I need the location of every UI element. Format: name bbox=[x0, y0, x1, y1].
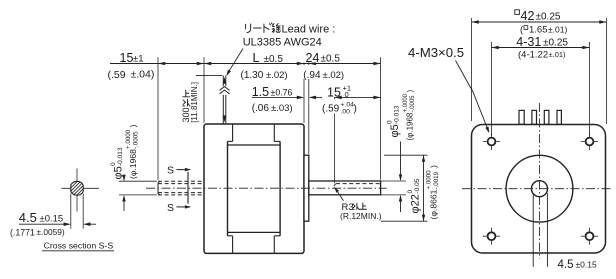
dimension 15 (flat length) lines bbox=[335, 96, 381, 98]
svg-text:±.0059): ±.0059) bbox=[37, 227, 65, 237]
4 terminal pins on motor top bbox=[519, 110, 524, 124]
svg-text:±.02): ±.02) bbox=[323, 70, 345, 81]
svg-text:): ) bbox=[354, 104, 357, 115]
dimension text phi5 front (rotated) bbox=[387, 105, 402, 137]
svg-text:1.65: 1.65 bbox=[529, 25, 548, 36]
svg-text:-.0005: -.0005 bbox=[410, 95, 416, 113]
svg-text:Lead wire :: Lead wire : bbox=[282, 24, 336, 36]
svg-text:±.01): ±.01) bbox=[548, 25, 567, 35]
svg-text:4-31: 4-31 bbox=[516, 35, 541, 49]
front view vertical center line bbox=[539, 103, 541, 259]
svg-text:(φ.1968: (φ.1968 bbox=[128, 149, 138, 179]
svg-text:±1: ±1 bbox=[133, 54, 144, 65]
svg-text:S: S bbox=[167, 202, 174, 214]
dimension text phi22 (rotated) bbox=[407, 178, 422, 213]
svg-text:15: 15 bbox=[120, 51, 134, 65]
svg-text:L: L bbox=[253, 51, 260, 65]
svg-text:-0.05: -0.05 bbox=[414, 178, 421, 193]
svg-text:(.1771: (.1771 bbox=[10, 227, 35, 237]
svg-text:): ) bbox=[128, 125, 138, 128]
shaft circle phi5 (front view) bbox=[532, 181, 548, 197]
svg-text:±0.15: ±0.15 bbox=[576, 259, 597, 269]
dimension text square42±0.25 bbox=[515, 10, 520, 15]
front pilot boss (side view) bbox=[304, 155, 309, 221]
svg-text:4.5: 4.5 bbox=[19, 210, 37, 225]
svg-text:15: 15 bbox=[327, 86, 341, 100]
dimension phi5 (front shaft) lines bbox=[381, 180, 406, 182]
svg-text:±.03): ±.03) bbox=[271, 103, 293, 114]
svg-text:±0.76: ±0.76 bbox=[271, 88, 293, 98]
front view flange outline bbox=[472, 125, 606, 254]
svg-text:(1.30: (1.30 bbox=[241, 70, 264, 81]
front view horizontal center line bbox=[462, 188, 612, 190]
halo behind 15 flat dim text bbox=[322, 99, 359, 114]
dimension 4.5 (across flats) lines bbox=[70, 194, 72, 229]
svg-text:(φ.8661: (φ.8661 bbox=[429, 189, 439, 219]
svg-text:(.59: (.59 bbox=[108, 69, 126, 81]
svg-text:): ) bbox=[406, 90, 415, 93]
svg-text:-0.013: -0.013 bbox=[117, 147, 124, 166]
motor body outline (side view) bbox=[204, 124, 304, 253]
svg-text:±.02): ±.02) bbox=[266, 70, 288, 81]
svg-text:+.0000: +.0000 bbox=[426, 170, 433, 190]
front shaft flat (D-cut) hidden line bbox=[336, 183, 380, 185]
front shaft (side view) bbox=[309, 181, 381, 195]
svg-text:φ22: φ22 bbox=[410, 194, 422, 213]
dimension text 300以上 [11.81MIN.] (rotated) bbox=[181, 107, 191, 122]
cross section S-S shaft detail (hatched circle with flats) bbox=[62, 187, 100, 189]
svg-text:-0.013: -0.013 bbox=[394, 105, 401, 124]
dimension chain lines (15, L, 24) bbox=[110, 63, 381, 65]
pilot circle phi22 (front view) bbox=[506, 155, 573, 222]
svg-text:Cross section S-S: Cross section S-S bbox=[44, 240, 114, 250]
svg-text:+.0000: +.0000 bbox=[125, 129, 132, 149]
svg-text:S: S bbox=[167, 165, 174, 177]
svg-text:±0.25: ±0.25 bbox=[543, 38, 568, 49]
svg-text:UL3385 AWG24: UL3385 AWG24 bbox=[243, 36, 322, 48]
lead wire label bbox=[246, 24, 251, 33]
shaft flat extension lines (front view) bbox=[532, 193, 534, 267]
lead wire exiting motor top (with break symbol) bbox=[222, 76, 224, 124]
stator/lamination section lines on body bbox=[232, 125, 234, 142]
svg-text:1.5: 1.5 bbox=[252, 85, 269, 99]
svg-text:+.04: +.04 bbox=[341, 102, 355, 109]
svg-text:+.0000: +.0000 bbox=[403, 93, 409, 112]
svg-text:): ) bbox=[429, 165, 439, 168]
svg-text:±.04): ±.04) bbox=[131, 69, 155, 81]
svg-text:±0.25: ±0.25 bbox=[536, 12, 561, 23]
dimension 4-31 lines bbox=[491, 42, 493, 136]
svg-text:±0.15: ±0.15 bbox=[40, 213, 64, 224]
svg-text:±0.5: ±0.5 bbox=[264, 54, 284, 65]
svg-text:φ5: φ5 bbox=[113, 166, 125, 179]
svg-text:0: 0 bbox=[345, 90, 349, 99]
4x M3 mounting holes bbox=[488, 138, 496, 146]
dimension phi22 (pilot) lines bbox=[384, 154, 428, 156]
svg-text:4-M3×0.5: 4-M3×0.5 bbox=[408, 45, 464, 60]
svg-text:0: 0 bbox=[110, 162, 117, 166]
svg-text:(φ.1968: (φ.1968 bbox=[406, 112, 415, 140]
lead wire leader arrow bbox=[227, 49, 243, 74]
leader for R3 MIN fillet bbox=[335, 188, 343, 201]
svg-text:±.01): ±.01) bbox=[549, 50, 567, 59]
svg-text:(.06: (.06 bbox=[252, 103, 270, 114]
svg-text:24: 24 bbox=[306, 51, 320, 65]
svg-text:0: 0 bbox=[407, 190, 414, 194]
dimension 300 MIN (wire length) bbox=[196, 75, 222, 77]
svg-text:.00: .00 bbox=[341, 109, 351, 116]
horizontal center line of side view bbox=[146, 187, 387, 189]
rear shaft with flats (hidden/dashed, double-shaft option) bbox=[158, 180, 204, 182]
svg-text:4.5: 4.5 bbox=[558, 259, 574, 271]
svg-text:-.0019: -.0019 bbox=[433, 171, 440, 189]
section cutting plane S-S with arrows bbox=[187, 172, 189, 204]
svg-text:[11.81MIN.]: [11.81MIN.] bbox=[190, 82, 199, 123]
svg-text:±0.5: ±0.5 bbox=[321, 54, 341, 65]
dimension square 42 lines bbox=[471, 18, 473, 121]
svg-text:0: 0 bbox=[387, 120, 394, 124]
svg-text:(.94: (.94 bbox=[303, 70, 321, 81]
svg-text:(4-1.22: (4-1.22 bbox=[518, 49, 548, 60]
halo behind 24 dim text bbox=[303, 50, 346, 63]
svg-text:(.59: (.59 bbox=[322, 104, 340, 115]
dimension 1.5 (boss height) lines bbox=[252, 96, 302, 98]
dimension phi5 (rear shaft) lines bbox=[119, 180, 157, 182]
svg-text:-.0005: -.0005 bbox=[133, 131, 140, 149]
svg-text:(R.12MIN.): (R.12MIN.) bbox=[340, 211, 382, 221]
dimension text phi5 rear (rotated) bbox=[110, 147, 125, 179]
svg-text:42: 42 bbox=[521, 9, 535, 23]
svg-text:φ5: φ5 bbox=[389, 124, 401, 137]
